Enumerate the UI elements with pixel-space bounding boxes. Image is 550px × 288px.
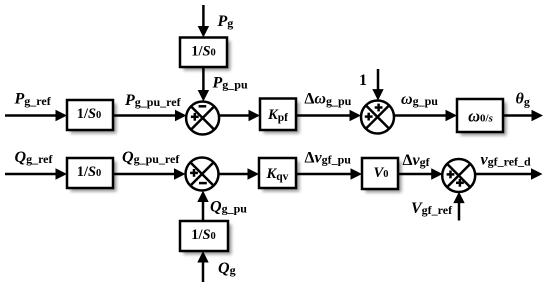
- wire W9 constant 1 into S2: [372, 69, 383, 101]
- svg-text:Pg_pu_ref: Pg_pu_ref: [124, 92, 182, 109]
- block B5 1/S0 shadow: [71, 162, 117, 192]
- svg-text:Pg_ref: Pg_ref: [14, 91, 52, 108]
- wire W8 1/S0 to S1 top: [198, 67, 209, 102]
- block B3 Kpf (P-f droop gain): [260, 99, 296, 131]
- block B2 1/S0 (Pg feedback scaler): [180, 38, 227, 68]
- summing junction S1 (P compare): [186, 102, 219, 135]
- wire W12 S3 to Kqv: [219, 168, 260, 179]
- svg-text:Vgf_ref: Vgf_ref: [411, 200, 453, 217]
- block B1 1/S0 (P row input scaler): [67, 100, 113, 130]
- block B7 V0 shadow: [366, 162, 402, 193]
- block B6 Kqv (Q-V droop gain): [259, 158, 296, 188]
- summing junction S4 (voltage sum): [442, 159, 475, 192]
- wire W4 Kpf to S2: [296, 110, 361, 121]
- wire W7 Pg input vertical: [198, 5, 209, 38]
- svg-text:ωg_pu: ωg_pu: [401, 91, 438, 108]
- svg-text:Δvgf_pu: Δvgf_pu: [305, 150, 352, 167]
- svg-text:1: 1: [359, 72, 367, 89]
- wire W1 Pg_ref input: [5, 110, 67, 121]
- wire W17 Qg input up into 1/S0: [197, 251, 208, 282]
- wire W10 Qg_ref input: [5, 168, 67, 179]
- wire W2 1/S0 to S1: [113, 110, 187, 121]
- block B8 1/S0 shadow: [184, 225, 232, 255]
- block B3 Kpf shadow: [264, 102, 300, 134]
- wire W18 Vgf_ref up into S4: [453, 192, 464, 221]
- svg-text:Qg_ref: Qg_ref: [15, 149, 54, 166]
- svg-text:Pg_pu: Pg_pu: [212, 75, 248, 92]
- wire W15 vgf_ref_d output: [475, 168, 542, 179]
- svg-text:Δvgf: Δvgf: [403, 152, 431, 169]
- svg-text:vgf_ref_d: vgf_ref_d: [481, 152, 532, 169]
- block B1 1/S0 shadow: [71, 104, 117, 134]
- summing junction S3 (Q compare): [186, 158, 219, 191]
- wire W16 1/S0 up to S3 bottom: [197, 191, 208, 222]
- svg-text:Qg_pu_ref: Qg_pu_ref: [122, 149, 180, 166]
- block B5 1/S0 (Q row input scaler): [67, 158, 113, 188]
- svg-text:Qg: Qg: [218, 260, 236, 277]
- block B4 omega0/s (integrator): [457, 99, 503, 132]
- block B8 1/S0 (Qg feedback scaler): [180, 221, 228, 251]
- block B2 1/S0 shadow: [184, 41, 231, 71]
- block B4 omega0/s integrator shadow: [461, 103, 507, 136]
- wire W3 S1 to Kpf: [219, 110, 260, 121]
- block B6 Kqv shadow: [263, 162, 300, 192]
- svg-text:Pg: Pg: [217, 13, 234, 30]
- svg-text:Δωg_pu: Δωg_pu: [304, 91, 351, 108]
- svg-text:Qg_pu: Qg_pu: [210, 199, 247, 216]
- wire W5 S2 to omega0/s: [394, 110, 457, 121]
- wire W13 Kqv to V0: [296, 168, 362, 179]
- wire W14 V0 to S4: [398, 168, 443, 179]
- wire W11 1/S0 to S3: [113, 168, 186, 179]
- block B7 V0 (nominal voltage gain): [362, 158, 398, 189]
- summing junction S2 (omega sum): [361, 101, 394, 134]
- wire W6 theta_g output: [503, 110, 543, 121]
